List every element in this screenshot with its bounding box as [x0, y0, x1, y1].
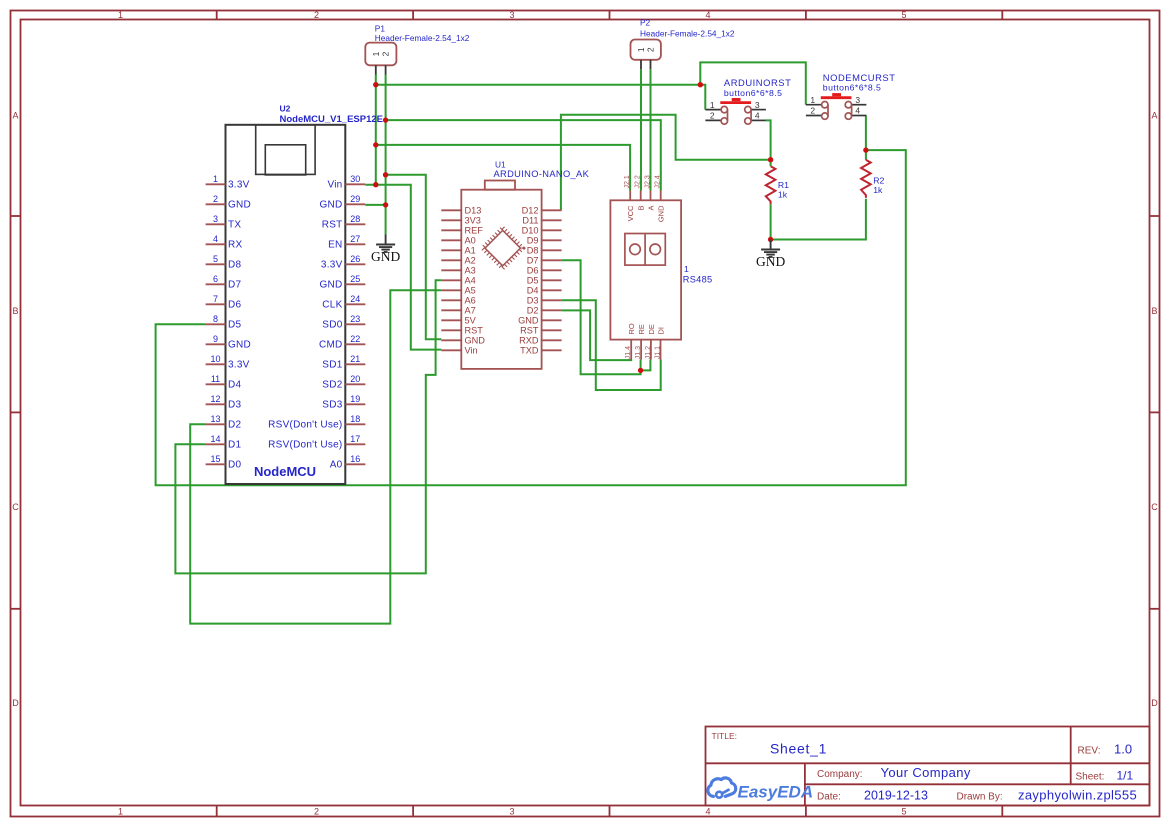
- U1 right pin D4: [527, 286, 562, 296]
- U2 pin 18 (RSV(Don't Use)): [268, 414, 365, 431]
- svg-text:23: 23: [350, 314, 360, 324]
- svg-text:EasyEDA: EasyEDA: [738, 782, 814, 801]
- wire NodeMCU Vin to Arduino Vin: [365, 185, 441, 350]
- U2 pin 3 (TX): [206, 214, 242, 231]
- svg-text:D12: D12: [522, 206, 539, 216]
- svg-text:5: 5: [213, 254, 218, 264]
- svg-text:D3: D3: [527, 296, 539, 306]
- svg-text:6: 6: [213, 274, 218, 284]
- U1 left pin 3V3: [441, 216, 481, 226]
- U1 right pin TXD: [520, 346, 561, 356]
- svg-text:5: 5: [901, 807, 906, 817]
- ground symbol under NodeMCU GND pin29: [371, 235, 400, 265]
- U2 pin 8 (D5): [206, 314, 242, 331]
- U2 pin 2 (GND): [206, 194, 251, 211]
- svg-text:D2: D2: [228, 420, 241, 431]
- U1 right pin D2: [527, 306, 562, 316]
- svg-text:Sheet_1: Sheet_1: [770, 740, 827, 756]
- svg-text:A1: A1: [465, 246, 476, 256]
- svg-text:D13: D13: [465, 206, 482, 216]
- IC U2 NodeMCU_V1_ESP12E body: [226, 104, 383, 485]
- svg-text:3: 3: [509, 807, 514, 817]
- U1 left pin GND: [441, 336, 485, 346]
- wire Arduino D12 to R1 top node: [561, 115, 771, 211]
- svg-text:29: 29: [350, 194, 360, 204]
- wire P2.1 to RS485 J2.2: [640, 69, 642, 190]
- svg-text:22: 22: [350, 334, 360, 344]
- svg-text:Vin: Vin: [327, 180, 342, 191]
- U2 pin 23 (SD0): [322, 314, 365, 331]
- wire P1.1 vertical to Vin node: [375, 75, 377, 185]
- wire RS485 J1.3 to J1.2 link: [641, 360, 651, 371]
- RS485 bottom pin J1.2 (DE): [645, 324, 656, 359]
- U1 left pin A1: [441, 246, 475, 256]
- svg-text:1: 1: [118, 10, 123, 20]
- svg-text:J2.3: J2.3: [645, 175, 652, 188]
- svg-text:J1.4: J1.4: [625, 346, 632, 359]
- U2 pin 13 (D2): [206, 414, 242, 431]
- svg-text:D3: D3: [228, 400, 241, 411]
- junction at 385.6,174.8: [383, 172, 388, 177]
- svg-text:19: 19: [350, 394, 360, 404]
- svg-text:D4: D4: [527, 286, 539, 296]
- U2 pin 4 (RX): [206, 234, 243, 251]
- svg-text:1: 1: [684, 264, 689, 274]
- svg-text:ARDUINO-NANO_AK: ARDUINO-NANO_AK: [494, 169, 590, 179]
- RS485 bottom pin J1.3 (RE): [635, 324, 646, 359]
- wire Arduino D2 to RS485 RO J1.4: [562, 310, 632, 360]
- svg-text:D8: D8: [228, 260, 241, 271]
- junction at 375.8,144.9: [373, 142, 378, 147]
- U1 right pin D7: [527, 256, 562, 266]
- svg-text:4: 4: [213, 234, 218, 244]
- U1 left pin D13: [441, 206, 481, 216]
- U2 pin 9 (GND): [206, 334, 251, 351]
- svg-text:20: 20: [350, 374, 360, 384]
- svg-text:A0: A0: [465, 236, 476, 246]
- ground symbol under R1: [756, 240, 785, 270]
- svg-text:16: 16: [350, 454, 360, 464]
- svg-text:D8: D8: [527, 246, 539, 256]
- svg-text:DI: DI: [657, 327, 666, 335]
- resistor R2 1k: [861, 160, 884, 198]
- U1 right pin D8: [527, 246, 562, 256]
- IC U1 ARDUINO-NANO_AK body: [461, 160, 589, 369]
- svg-text:J1.2: J1.2: [645, 346, 652, 359]
- U1 left pin RST: [441, 326, 483, 336]
- svg-text:CMD: CMD: [319, 340, 343, 351]
- svg-text:5: 5: [901, 10, 906, 20]
- svg-text:4: 4: [855, 106, 860, 116]
- U2 pin 22 (CMD): [319, 334, 365, 351]
- svg-text:Company:: Company:: [817, 769, 863, 780]
- svg-text:2: 2: [314, 10, 319, 20]
- U1 left pin A0: [441, 236, 475, 246]
- svg-text:D: D: [12, 698, 19, 708]
- U1 right pin RXD: [519, 336, 562, 346]
- svg-text:1: 1: [636, 47, 646, 52]
- svg-text:2: 2: [381, 51, 391, 56]
- svg-text:RXD: RXD: [519, 336, 539, 346]
- svg-text:RST: RST: [322, 220, 343, 231]
- wire branch to NODEMCURST pin1: [700, 62, 806, 104]
- svg-text:J2.2: J2.2: [635, 175, 642, 188]
- svg-text:RS485: RS485: [683, 275, 713, 285]
- U2 pin 10 (3.3V): [206, 354, 250, 371]
- wire NodeMCU GND pin29: [365, 204, 385, 206]
- svg-text:26: 26: [350, 254, 360, 264]
- U2 pin 12 (D3): [206, 394, 242, 411]
- U1 left pin A3: [441, 266, 475, 276]
- svg-text:button6*6*8.5: button6*6*8.5: [823, 83, 882, 93]
- svg-text:A5: A5: [465, 286, 476, 296]
- svg-text:12: 12: [210, 394, 220, 404]
- RS485 bottom pin J1.1 (DI): [655, 327, 666, 360]
- EasyEDA logo: [708, 778, 813, 801]
- wire Arduino A5 to NodeMCU D2: [190, 290, 441, 623]
- svg-text:TXD: TXD: [520, 346, 539, 356]
- module RS485 body: [610, 200, 712, 339]
- svg-text:2: 2: [710, 111, 715, 121]
- RS485 top pin J2.2 (B): [635, 175, 646, 210]
- svg-text:A: A: [647, 206, 656, 211]
- svg-text:VCC: VCC: [626, 205, 635, 221]
- junction at 385.6,204.9: [383, 202, 388, 207]
- svg-text:3: 3: [509, 10, 514, 20]
- U2 pin 19 (SD3): [322, 394, 365, 411]
- svg-text:Sheet:: Sheet:: [1076, 771, 1105, 782]
- wire Arduino A4 to NodeMCU D1: [175, 280, 441, 573]
- svg-text:P2: P2: [640, 18, 651, 28]
- svg-text:J2.4: J2.4: [655, 175, 662, 188]
- U1 left pin Vin: [441, 346, 477, 356]
- wire R1 bottom to GND node: [770, 204, 772, 239]
- svg-text:button6*6*8.5: button6*6*8.5: [724, 88, 783, 98]
- svg-text:Date:: Date:: [817, 791, 841, 802]
- svg-text:D7: D7: [228, 280, 241, 291]
- svg-text:Vin: Vin: [465, 346, 478, 356]
- U2 pin 17 (RSV(Don't Use)): [268, 434, 365, 451]
- svg-text:C: C: [1151, 502, 1158, 512]
- svg-text:A6: A6: [465, 296, 476, 306]
- svg-text:SD2: SD2: [322, 380, 342, 391]
- svg-text:3: 3: [755, 100, 760, 110]
- U1 left pin A6: [441, 296, 475, 306]
- svg-text:A7: A7: [465, 306, 476, 316]
- svg-text:D7: D7: [527, 256, 539, 266]
- wire P2.2 to RS485 J2.3: [650, 69, 652, 190]
- wire Arduino D3 to RS485 DI J1.1: [562, 300, 661, 390]
- svg-text:5V: 5V: [465, 316, 477, 326]
- svg-text:15: 15: [210, 454, 220, 464]
- svg-text:18: 18: [350, 414, 360, 424]
- U2 pin 27 (EN): [328, 234, 365, 251]
- U2 pin 1 (3.3V): [206, 174, 250, 191]
- title block: [706, 727, 1150, 806]
- svg-text:28: 28: [350, 214, 360, 224]
- frame row labels: [12, 111, 1158, 709]
- junction at 375.8,84.7: [373, 82, 378, 87]
- svg-text:Header-Female-2.54_1x2: Header-Female-2.54_1x2: [375, 33, 470, 43]
- svg-text:zayphyolwin.zpl555: zayphyolwin.zpl555: [1018, 787, 1137, 802]
- pushbutton NODEMCURST button6*6*8.5: [806, 72, 896, 119]
- pushbutton ARDUINORST button6*6*8.5: [705, 77, 791, 124]
- svg-text:24: 24: [350, 294, 360, 304]
- svg-text:J2.1: J2.1: [624, 175, 631, 188]
- svg-text:4: 4: [755, 111, 760, 121]
- svg-text:3: 3: [213, 214, 218, 224]
- U1 right pin D9: [527, 236, 562, 246]
- svg-text:D5: D5: [527, 276, 539, 286]
- U2 pin 14 (D1): [206, 434, 242, 451]
- svg-text:D11: D11: [522, 216, 538, 226]
- svg-text:C: C: [12, 502, 19, 512]
- svg-text:1/1: 1/1: [1117, 768, 1134, 782]
- svg-text:7: 7: [213, 294, 218, 304]
- svg-text:17: 17: [350, 434, 360, 444]
- U1 left pin REF: [441, 226, 483, 236]
- svg-text:D4: D4: [228, 380, 241, 391]
- U2 pin 28 (RST): [322, 214, 366, 231]
- junction at 375.8,184.7: [373, 182, 378, 187]
- svg-text:J1.3: J1.3: [635, 346, 642, 359]
- svg-text:GND: GND: [228, 340, 251, 351]
- wire R2 bottom to GND node: [771, 199, 866, 240]
- svg-text:R1: R1: [778, 180, 789, 190]
- junction at 865.9,150.1: [863, 147, 868, 152]
- svg-text:1: 1: [213, 174, 218, 184]
- svg-text:RST: RST: [465, 326, 484, 336]
- wire ARDUINORST pin4 to R1 top: [766, 120, 771, 166]
- svg-text:A: A: [12, 111, 18, 121]
- U2 pin 30 (Vin): [327, 174, 365, 191]
- U2 pin 5 (D8): [206, 254, 242, 271]
- resistor R1 1k: [766, 166, 789, 204]
- svg-text:27: 27: [350, 234, 360, 244]
- svg-text:1.0: 1.0: [1114, 741, 1132, 756]
- U1 right pin RST: [520, 326, 561, 336]
- svg-text:Drawn By:: Drawn By:: [957, 791, 1003, 802]
- svg-text:ARDUINORST: ARDUINORST: [724, 77, 791, 88]
- svg-text:10: 10: [210, 354, 220, 364]
- svg-text:A: A: [1151, 111, 1157, 121]
- svg-text:GND: GND: [371, 249, 400, 264]
- svg-text:J1.1: J1.1: [655, 346, 662, 359]
- svg-text:1: 1: [810, 95, 815, 105]
- U1 left pin A2: [441, 256, 475, 266]
- svg-text:Header-Female-2.54_1x2: Header-Female-2.54_1x2: [640, 29, 735, 39]
- svg-text:D: D: [1151, 698, 1158, 708]
- svg-text:RSV(Don't Use): RSV(Don't Use): [268, 440, 342, 451]
- svg-text:13: 13: [210, 414, 220, 424]
- svg-text:25: 25: [350, 274, 360, 284]
- U2 pin 16 (A0): [330, 454, 366, 471]
- svg-text:CLK: CLK: [322, 300, 342, 311]
- U2 pin 24 (CLK): [322, 294, 365, 311]
- svg-text:D6: D6: [228, 300, 241, 311]
- svg-text:A3: A3: [465, 266, 476, 276]
- svg-text:2: 2: [213, 194, 218, 204]
- RS485 top pin J2.3 (A): [645, 175, 656, 210]
- svg-text:RSV(Don't Use): RSV(Don't Use): [268, 420, 342, 431]
- svg-text:A0: A0: [330, 460, 343, 471]
- wire Vin net to RS485 VCC J2.1: [376, 145, 630, 191]
- U2 pin 7 (D6): [206, 294, 242, 311]
- svg-text:3.3V: 3.3V: [321, 260, 343, 271]
- wire Arduino D7 to RS485 RE/DE: [562, 260, 641, 374]
- U1 right pin GND: [518, 316, 562, 326]
- svg-text:1: 1: [118, 807, 123, 817]
- svg-text:RE: RE: [637, 324, 646, 334]
- svg-text:A2: A2: [465, 256, 476, 266]
- U1 right pin D10: [522, 226, 562, 236]
- U1 left pin 5V: [441, 316, 476, 326]
- U1 right pin D6: [527, 266, 562, 276]
- svg-text:30: 30: [350, 174, 360, 184]
- svg-text:2: 2: [314, 807, 319, 817]
- svg-text:8: 8: [213, 314, 218, 324]
- svg-text:1k: 1k: [873, 185, 883, 195]
- U1 left pin A5: [441, 286, 475, 296]
- wire R2 node down right side to NodeMCU D5: [156, 150, 906, 485]
- U2 pin 21 (SD1): [322, 354, 365, 371]
- junction at 770.6,159.7: [768, 157, 773, 162]
- svg-text:RO: RO: [627, 323, 636, 334]
- wire P1.2 / GND vertical down to GND symbol: [385, 75, 387, 235]
- RS485 bottom pin J1.4 (RO): [625, 323, 636, 359]
- junction at 640.6,370.4: [638, 368, 643, 373]
- svg-text:21: 21: [350, 354, 360, 364]
- svg-text:D9: D9: [527, 236, 539, 246]
- svg-text:RX: RX: [228, 240, 242, 251]
- svg-text:REV:: REV:: [1078, 745, 1101, 756]
- svg-text:11: 11: [211, 374, 220, 384]
- svg-text:A4: A4: [465, 276, 476, 286]
- svg-text:NODEMCURST: NODEMCURST: [823, 72, 896, 83]
- svg-text:Your Company: Your Company: [881, 765, 971, 780]
- svg-text:D2: D2: [527, 306, 539, 316]
- svg-text:D1: D1: [228, 440, 241, 451]
- svg-text:3: 3: [855, 95, 860, 105]
- svg-text:2019-12-13: 2019-12-13: [864, 788, 928, 802]
- title block texts: [712, 731, 1105, 803]
- svg-text:RST: RST: [520, 326, 539, 336]
- svg-text:TX: TX: [228, 220, 241, 231]
- svg-text:SD3: SD3: [322, 400, 342, 411]
- svg-text:4: 4: [705, 807, 710, 817]
- U1 left pin A7: [441, 306, 475, 316]
- U1 QFP chip diamond: [483, 228, 523, 268]
- svg-text:4: 4: [705, 10, 710, 20]
- U2 pin 11 (D4): [206, 374, 242, 391]
- U1 right pin D12: [522, 206, 562, 216]
- svg-text:2: 2: [646, 47, 656, 52]
- U2 pin 6 (D7): [206, 274, 242, 291]
- svg-text:SD0: SD0: [322, 320, 342, 331]
- svg-text:GND: GND: [465, 336, 486, 346]
- svg-text:1k: 1k: [778, 190, 788, 200]
- U1 left pin A4: [441, 276, 475, 286]
- svg-text:GND: GND: [320, 200, 343, 211]
- svg-text:D0: D0: [228, 460, 241, 471]
- U2 pin 26 (3.3V): [321, 254, 365, 271]
- svg-text:NodeMCU: NodeMCU: [254, 464, 316, 479]
- svg-text:3.3V: 3.3V: [228, 360, 250, 371]
- U2 pin 15 (D0): [206, 454, 242, 471]
- U1 right pin D5: [527, 276, 562, 286]
- svg-text:B: B: [637, 206, 646, 211]
- junction at 385.6,120.1: [383, 117, 388, 122]
- svg-text:U2: U2: [280, 104, 291, 114]
- svg-text:REF: REF: [465, 226, 484, 236]
- svg-text:D10: D10: [522, 226, 539, 236]
- svg-text:GND: GND: [228, 200, 251, 211]
- U1 right pin D11: [522, 216, 561, 226]
- svg-text:9: 9: [213, 334, 218, 344]
- svg-text:B: B: [1151, 306, 1157, 316]
- wire GND net to Arduino GND: [386, 175, 442, 339]
- junction at 700.3,84.7: [698, 82, 703, 87]
- connector P2 Header-Female-2.54_1x2: [631, 18, 735, 70]
- svg-text:3.3V: 3.3V: [228, 180, 250, 191]
- svg-text:1: 1: [371, 51, 381, 56]
- U2 pin 25 (GND): [320, 274, 366, 291]
- svg-text:TITLE:: TITLE:: [712, 731, 738, 741]
- U1 right pin D3: [527, 296, 562, 306]
- svg-text:GND: GND: [657, 205, 666, 222]
- svg-text:EN: EN: [328, 240, 342, 251]
- junction at 770.6,239.5: [768, 237, 773, 242]
- wire Vin net to buttons: [376, 85, 706, 110]
- svg-text:B: B: [12, 306, 18, 316]
- svg-text:D5: D5: [228, 320, 241, 331]
- svg-text:GND: GND: [756, 254, 785, 269]
- frame column labels: [118, 10, 907, 817]
- RS485 top pin J2.4 (GND): [655, 175, 666, 222]
- svg-text:D6: D6: [527, 266, 539, 276]
- svg-text:14: 14: [210, 434, 220, 444]
- RS485 top pin J2.1 (VCC): [624, 175, 635, 221]
- wire NODEMCURST pin4 to R2 top: [865, 116, 867, 160]
- U2 pin 29 (GND): [320, 194, 366, 211]
- connector P1 Header-Female-2.54_1x2: [365, 23, 469, 74]
- wire GND net to RS485 J2.4: [386, 120, 661, 190]
- svg-text:GND: GND: [320, 280, 343, 291]
- svg-text:1: 1: [710, 100, 715, 110]
- svg-text:SD1: SD1: [322, 360, 342, 371]
- svg-text:GND: GND: [518, 316, 539, 326]
- svg-text:DE: DE: [647, 324, 656, 334]
- svg-text:2: 2: [810, 106, 815, 116]
- U2 pin 20 (SD2): [322, 374, 365, 391]
- svg-text:3V3: 3V3: [465, 216, 481, 226]
- svg-text:NodeMCU_V1_ESP12E: NodeMCU_V1_ESP12E: [280, 114, 383, 125]
